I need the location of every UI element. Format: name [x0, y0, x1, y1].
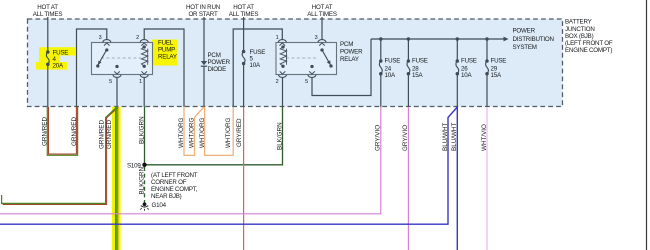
svg-text:(LEFT FRONT OF: (LEFT FRONT OF	[565, 40, 613, 47]
svg-text:10A: 10A	[385, 72, 396, 79]
svg-text:BATTERY: BATTERY	[565, 19, 592, 26]
svg-text:DISTRIBUTION: DISTRIBUTION	[513, 36, 554, 43]
svg-text:DIODE: DIODE	[208, 66, 227, 73]
svg-text:POWER: POWER	[513, 28, 536, 35]
svg-text:10A: 10A	[250, 62, 261, 69]
svg-text:GRN/RED: GRN/RED	[106, 120, 113, 149]
svg-text:SYSTEM: SYSTEM	[513, 44, 537, 51]
svg-text:NEAR BJB): NEAR BJB)	[151, 193, 182, 200]
svg-text:2: 2	[276, 79, 279, 85]
svg-text:HOT AT: HOT AT	[37, 4, 58, 11]
svg-text:BLK/GRN: BLK/GRN	[138, 166, 145, 194]
svg-text:FUSE: FUSE	[461, 58, 477, 65]
svg-text:WHT/ORG: WHT/ORG	[178, 117, 185, 148]
svg-text:FUEL: FUEL	[158, 40, 174, 47]
svg-text:G104: G104	[152, 202, 167, 209]
svg-text:PCM: PCM	[340, 41, 353, 48]
svg-text:OR START: OR START	[188, 11, 218, 18]
svg-text:ENGINE COMPT,: ENGINE COMPT,	[151, 186, 198, 193]
svg-text:RELAY: RELAY	[340, 56, 359, 63]
svg-text:ENGINE COMPT): ENGINE COMPT)	[565, 47, 612, 54]
svg-text:FUSE: FUSE	[412, 58, 428, 65]
svg-text:ALL TIMES: ALL TIMES	[33, 11, 63, 18]
svg-text:5: 5	[305, 79, 308, 85]
svg-text:2: 2	[136, 35, 139, 41]
svg-text:ALL TIMES: ALL TIMES	[229, 11, 259, 18]
svg-text:CORNER OF: CORNER OF	[151, 179, 187, 186]
svg-text:GRY/RED: GRY/RED	[236, 118, 243, 147]
svg-text:GRY/VIO: GRY/VIO	[402, 125, 409, 151]
svg-text:1: 1	[276, 35, 279, 41]
svg-text:WHT/VIO: WHT/VIO	[481, 124, 488, 151]
svg-text:5: 5	[109, 79, 112, 85]
svg-text:GRY/VIO: GRY/VIO	[375, 125, 382, 151]
svg-text:1: 1	[139, 79, 142, 85]
svg-text:GRN/RED: GRN/RED	[71, 117, 78, 146]
svg-text:20A: 20A	[53, 62, 64, 69]
svg-text:BLU/WHT: BLU/WHT	[451, 123, 458, 151]
svg-text:JUNCTION: JUNCTION	[565, 26, 595, 33]
svg-text:POWER: POWER	[340, 49, 363, 56]
svg-text:10A: 10A	[461, 72, 472, 79]
svg-text:BOX (BJB): BOX (BJB)	[565, 33, 594, 40]
svg-text:PCM: PCM	[208, 52, 221, 59]
svg-text:POWER: POWER	[208, 59, 231, 66]
svg-text:GRN/RED: GRN/RED	[98, 120, 105, 149]
svg-text:PUMP: PUMP	[158, 47, 175, 54]
svg-text:15A: 15A	[412, 72, 423, 79]
svg-text:HOT IN RUN: HOT IN RUN	[186, 4, 220, 11]
svg-text:FUSE: FUSE	[385, 58, 401, 65]
svg-text:HOT AT: HOT AT	[233, 4, 254, 11]
svg-text:3: 3	[315, 35, 318, 41]
svg-text:GRN/RED: GRN/RED	[42, 117, 49, 146]
svg-text:FUSE: FUSE	[491, 58, 507, 65]
svg-text:WHT/ORG: WHT/ORG	[199, 117, 206, 148]
svg-text:HOT AT: HOT AT	[312, 4, 333, 11]
svg-text:BLK/GRN: BLK/GRN	[138, 116, 145, 144]
svg-text:WHT/ORG: WHT/ORG	[225, 117, 232, 148]
svg-text:BLU/WHT: BLU/WHT	[442, 123, 449, 151]
svg-text:3: 3	[99, 35, 102, 41]
svg-text:15A: 15A	[491, 72, 502, 79]
svg-text:RELAY: RELAY	[158, 54, 177, 61]
svg-text:(AT LEFT FRONT: (AT LEFT FRONT	[151, 172, 198, 179]
svg-text:WHT/ORG: WHT/ORG	[188, 117, 195, 148]
svg-text:ALL TIMES: ALL TIMES	[307, 11, 337, 18]
svg-text:BLK/GRN: BLK/GRN	[276, 122, 283, 150]
